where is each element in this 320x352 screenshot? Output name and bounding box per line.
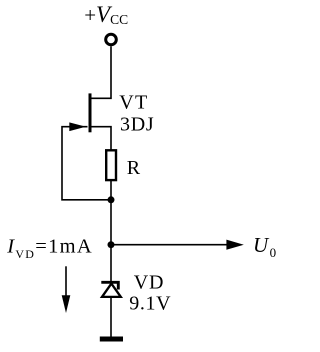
svg-text:VD: VD (134, 272, 165, 294)
svg-text:3DJ: 3DJ (120, 114, 154, 136)
svg-text:R: R (127, 157, 141, 179)
svg-text:VT: VT (119, 92, 148, 114)
svg-text:9.1V: 9.1V (129, 293, 171, 315)
